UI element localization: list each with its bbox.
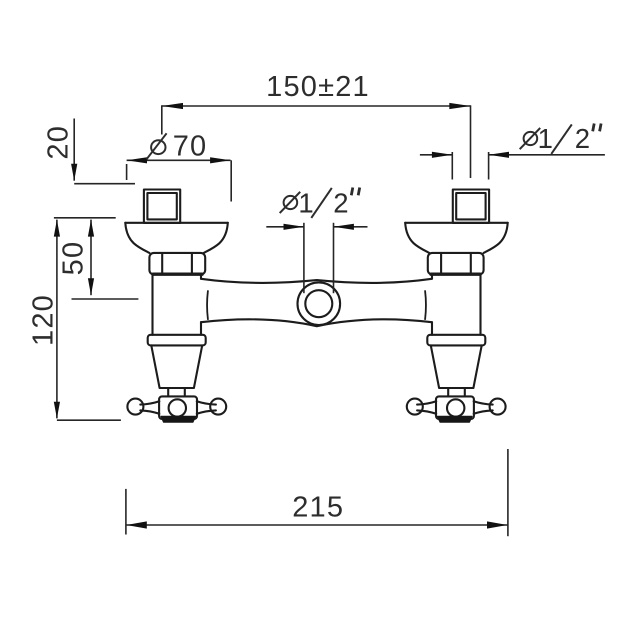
svg-text:1: 1 <box>298 187 315 218</box>
svg-text:120: 120 <box>27 294 59 346</box>
svg-text:215: 215 <box>292 492 344 524</box>
svg-text:50: 50 <box>58 241 90 276</box>
svg-text:70: 70 <box>173 131 208 163</box>
svg-text:150±21: 150±21 <box>266 71 370 103</box>
svg-text:20: 20 <box>43 125 75 160</box>
svg-text:2: 2 <box>575 123 592 154</box>
svg-text:2: 2 <box>333 187 350 218</box>
svg-text:1: 1 <box>538 123 555 154</box>
